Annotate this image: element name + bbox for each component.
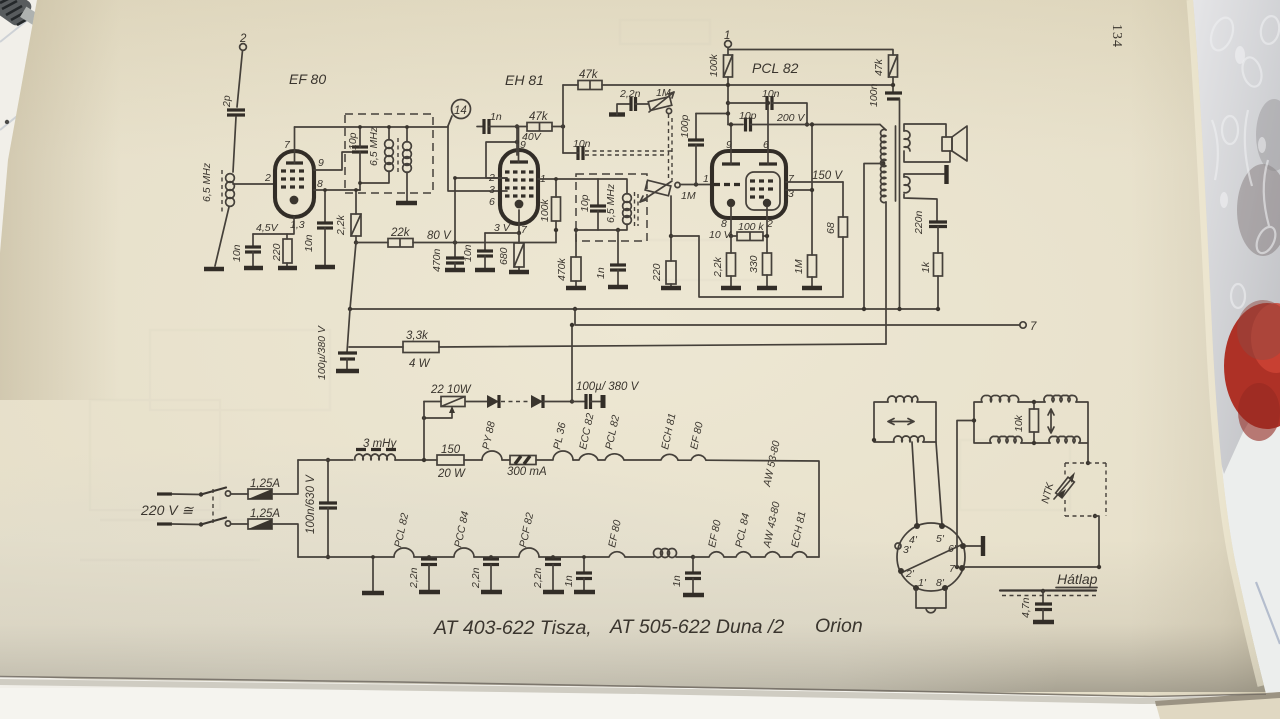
output transformer secondary upper [904,131,910,151]
dashed box NTK [1065,463,1106,516]
svg-text:4,7n: 4,7n [1020,597,1032,618]
heater hump ECH81 lower [780,510,809,557]
node 100k/47k line [726,83,730,87]
capacitor 100n [868,83,902,309]
shadow under page bottom edge [0,679,1266,704]
svg-text:10 V: 10 V [709,229,732,241]
node pin9 riser [515,140,519,144]
back panel line solid [1000,589,1096,591]
bubble wrap highlights [1207,15,1280,308]
coil L3 secondary (box1) [403,142,412,173]
svg-text:6: 6 [763,139,769,151]
wire 3V left [485,232,519,234]
svg-text:220 V ≅: 220 V ≅ [140,502,194,518]
svg-text:9: 9 [726,139,732,151]
ground coil L3 [396,201,417,205]
capacitor 1n d [553,557,592,590]
wire pin7 line [965,566,1099,568]
output transformer primary [880,125,886,345]
ground 100µ main [336,369,359,373]
node NTK bottom [1093,514,1097,518]
wire PY88 to fuse [502,459,510,461]
svg-text:100p: 100p [679,114,691,138]
resistor 1k [920,253,943,309]
resistor 47k output [873,55,898,92]
node 1n e [691,555,695,559]
wire EH81 grid2 riser [486,142,517,178]
svg-text:AT 403-622 Tisza,: AT 403-622 Tisza, [433,617,592,639]
resistor 220 volume return [651,196,676,286]
svg-text:68: 68 [825,222,837,234]
shielded pair dashed horizontal [585,151,672,155]
node rheostat riser [422,458,426,462]
wire riser to top 47k line [562,85,564,153]
svg-text:Hátlap: Hátlap [1057,571,1098,587]
svg-text:3': 3' [903,544,912,556]
capacitor 2p [221,95,245,115]
capacitor 10n screen EF80 [303,190,333,265]
svg-text:9: 9 [318,157,324,169]
capacitor 1n det [595,230,626,285]
svg-text:10k: 10k [1013,414,1025,432]
heater hump PCL82 lower [392,512,414,557]
svg-text:20 W: 20 W [437,468,466,480]
svg-text:3: 3 [489,184,495,196]
wire heater lower right end [807,556,819,558]
wire 80V line [413,230,556,243]
svg-text:1n: 1n [671,575,683,587]
wire 10p bottom [359,152,361,183]
width coil top-right [1044,395,1077,402]
switch dashed link [212,489,214,524]
svg-text:1n: 1n [563,575,575,587]
wire pot2 to PCL82 pin1 [680,184,712,186]
heater hump PCC84 [429,510,474,557]
wire NTK to pin7 line [1095,516,1099,567]
rheostat wiper arm [422,406,455,420]
PCL82 pentode plate [759,103,777,164]
junction dots misc [323,125,940,559]
ground 1M [802,286,822,290]
svg-text:1n: 1n [490,111,502,123]
PCL82 triode cathode dot [727,199,735,207]
wire terminal1 top line [728,48,893,56]
svg-text:1: 1 [703,173,709,185]
ground 2,2n a [419,590,440,594]
coil L4 6,5MHz (box2) [605,183,631,224]
output transformer secondary lower [904,177,910,193]
svg-text:47k: 47k [579,69,599,81]
svg-text:47k: 47k [529,111,549,123]
resistor 100k cathode row [731,221,767,241]
capacitor 10p (box1) [347,132,368,152]
CRT pin 8' [936,577,948,591]
svg-text:100k: 100k [539,198,551,222]
svg-text:22 10W: 22 10W [430,384,472,396]
deflection yoke frame left [874,402,936,442]
CRT pin 4' [909,523,920,546]
node rectifier output [570,399,574,403]
node width right riser [1086,461,1090,465]
svg-text:10n: 10n [462,244,474,262]
fuse 300mA [507,456,547,479]
diode D1 [466,395,499,408]
node 100n choke line [326,458,330,462]
arrow width adjust [1048,409,1054,433]
resistor 330 [748,253,772,286]
IF transformer dashed box 1 [345,114,433,193]
red object right edge [1224,303,1280,429]
ground 1n e [683,593,704,597]
svg-text:10n: 10n [573,138,591,150]
node 4,7n tap [1041,589,1045,593]
back panel line dashed [1002,595,1096,597]
svg-text:5': 5' [936,533,945,545]
resistor 100k IF [539,179,561,230]
svg-text:2,2n: 2,2n [619,88,641,100]
rheostat 22 10W [424,384,472,407]
resistor 47k grid EH81 [527,111,552,131]
EH81 output line pin1 [538,178,598,180]
heater hump ECC82 [573,412,598,460]
CRT chord line [903,545,961,572]
svg-text:8: 8 [317,178,323,190]
ground antenna [204,267,224,271]
tile grout line bottom-right [1256,582,1280,644]
PCL triode cathode wire [730,207,732,236]
next page sliver bottom right [1155,692,1280,719]
svg-text:470k: 470k [556,257,568,281]
svg-text:2p: 2p [221,95,233,108]
ground 10n EH81 [475,268,495,272]
capacitor 10n cathode EF80 [231,234,261,266]
node triode plate line [729,122,733,126]
capacitor 4,7n [1020,591,1052,620]
svg-text:1': 1' [918,577,927,589]
dashed core box1 [397,138,399,172]
wire 100k down [727,77,729,125]
ground 10n screen [315,265,335,269]
node box2 rail mid [616,228,620,232]
terminal 2 (antenna input) [239,33,247,50]
node pin7/width riser [955,565,959,569]
bubble wrap area right [1190,0,1280,474]
svg-text:10p: 10p [579,194,591,212]
capacitor 100n/630V [305,460,337,557]
ground 470n [445,268,465,272]
svg-text:2,2n: 2,2n [408,567,420,589]
svg-text:47k: 47k [873,58,885,76]
wire coil L4 top [598,179,627,194]
resistor 68 [825,182,848,297]
svg-text:680: 680 [498,247,510,265]
tube PCL82 envelope [712,151,786,218]
wire coil L3 top [406,127,408,142]
svg-text:10n: 10n [231,244,243,262]
capacitor 2,2n c [532,557,561,590]
wire antenna down [237,51,243,108]
svg-text:10p: 10p [347,132,359,150]
svg-text:100µ/380 V: 100µ/380 V [316,325,328,380]
contact circle pot2 [675,182,680,187]
node 100k bottom [554,228,558,232]
width coil top-left [981,395,1018,402]
svg-text:1M: 1M [656,87,671,99]
resistor 2,2k cathode [712,236,736,286]
callout 14 [448,100,471,127]
pin 9 wire EF80 [314,152,352,170]
node 2,2k/22k junction [354,240,358,244]
svg-text:22k: 22k [390,227,411,239]
capacitor 2,2n a [408,557,437,590]
svg-text:3 mHy: 3 mHy [363,438,397,450]
potentiometer 1M volume [640,180,696,202]
svg-text:1n: 1n [595,267,607,279]
ground 680 [509,270,529,274]
resistor 470k [556,230,581,286]
ground bar heater stub [362,591,384,595]
yoke coil bottom [894,436,924,442]
ground 330 [757,286,777,290]
node 220/cathode row [669,234,673,238]
CRT base key [916,590,946,613]
output transformer B+ tap [864,161,885,309]
node pin7 right [1097,565,1101,569]
wire yoke to pin5 [936,442,942,524]
ground stub heater [372,557,374,591]
choke 3 mHy [355,438,398,460]
svg-text:6: 6 [489,196,495,208]
resistor 220 cathode EF80 [271,234,292,266]
wire 80V to 100k bottom [555,230,557,243]
PCL pentode cathode wire [766,207,768,253]
capacitor 100µ/380V main filter [316,309,357,380]
capacitor 2,2n [617,88,648,115]
capacitor 470n [431,243,464,273]
heater hump PCF82 [491,511,539,557]
PCL82 pentode inner box [746,172,780,210]
svg-text:2: 2 [239,33,247,45]
wire junction down to B+ [350,243,356,310]
resistor 47k anode EH81 [563,69,893,90]
wire 10p top [359,127,361,147]
svg-text:6,5 MHz: 6,5 MHz [368,126,380,166]
wire coil L3 to ground [406,172,408,201]
wire 100p top to terminal1 riser [696,113,727,115]
node 100k/10n line [726,101,730,105]
wire choke line left [298,459,353,461]
svg-text:100n: 100n [868,83,880,107]
resistor 1M [793,255,817,286]
node bus A 150V [862,307,866,311]
node 10k top [1032,400,1036,404]
svg-text:1M: 1M [681,190,696,202]
ground 220 [278,266,297,270]
svg-text:10n: 10n [303,234,315,252]
wire 14-node down to EH81 pin3 [448,126,507,191]
PCL82 grid dashes [714,181,773,197]
contact circle pot1 [666,108,671,113]
wire B+ bus line A [350,308,938,310]
bottom table bright strip [0,688,1232,719]
svg-text:1: 1 [724,30,730,42]
wire terminal 7 line [575,309,1020,325]
wire width riser [957,421,974,568]
svg-text:2,2n: 2,2n [470,567,482,589]
speaker [904,124,967,162]
wire rectifier riser [571,325,573,402]
wire coil L2 top [388,127,390,140]
resistor 3,3k 4W [403,330,439,370]
CRT pin 2' [898,568,915,580]
svg-text:1,25A: 1,25A [250,508,280,520]
node bus A 100n [897,307,901,311]
ground 10n cathode [244,266,263,270]
shielded pair dashed vertical [669,114,673,180]
CRT pin 3' [895,543,912,556]
svg-text:6,5 MHz: 6,5 MHz [201,162,213,202]
svg-text:220: 220 [651,263,663,282]
CRT pin 1' [913,577,927,591]
wire pin3 g2 [786,189,812,191]
wire pin9 riser [516,127,518,156]
PCL82 pentode cathode dot [763,199,771,207]
node 47k/85 line [891,83,895,87]
wire EF80 plate line [295,126,449,128]
svg-text:134: 134 [1109,24,1124,48]
wire coil to ground [215,207,229,266]
wire 220 to PCL cathode row [671,235,699,237]
dark object under wrap [1237,164,1280,256]
ground 1n d [574,590,595,594]
svg-text:2,2k: 2,2k [712,256,724,278]
ground 1n det [608,285,628,289]
dashed core box2 [635,192,639,228]
wire heater upper right [706,460,819,557]
svg-text:470n: 470n [431,248,443,272]
fuse 1,25A lower [231,508,298,557]
resistor 10k width [1013,402,1039,443]
svg-text:7: 7 [1030,321,1037,333]
CRT pin 6' [948,543,966,555]
width coil bottom-right [1049,436,1080,443]
CRT socket circle [897,523,965,591]
svg-text:AT 505-622 Duna /2: AT 505-622 Duna /2 [609,616,784,638]
EH81 anode plate [510,127,528,162]
ground 2,2n b [481,590,502,594]
page bottom curled edge dark line [0,677,1266,697]
fuse 1,25A upper [231,460,298,499]
capacitor 100µ/380V reservoir [572,381,640,409]
svg-text:10n: 10n [762,88,780,100]
svg-text:Orion: Orion [815,615,863,637]
svg-text:40V: 40V [522,131,542,143]
svg-text:2': 2' [905,568,915,580]
node 10k bottom [1032,441,1036,445]
coil heater series [625,549,693,558]
resistor 150 20W [437,444,466,480]
svg-text:100k: 100k [708,53,720,77]
arrow yoke adjust [888,419,914,425]
svg-text:1k: 1k [920,261,932,273]
svg-text:300 mA: 300 mA [507,466,547,478]
svg-text:220: 220 [271,243,283,262]
capacitor 10n cathode EH81 [462,233,493,268]
pin 8 wire EF80 [314,178,360,190]
svg-text:EH 81: EH 81 [505,72,544,88]
heater hump EF80 upper [678,421,706,460]
wire heater lower from mains [298,556,394,558]
EH81 cathode wire [518,210,520,233]
wire grid EF80 [233,183,275,185]
diode D2 [531,395,572,408]
node yoke left [872,438,876,442]
svg-text:2,2n: 2,2n [532,567,544,589]
svg-text:100n/630 V: 100n/630 V [305,474,317,534]
heater hump PCL84 [724,512,752,557]
heater hump PY88 [480,420,502,460]
width transformer frame [974,402,1088,463]
svg-text:150 V: 150 V [812,170,843,182]
CRT pin 7' [949,563,965,575]
EF80 grid dashes [281,171,304,187]
capacitor 1n coupling [477,111,527,134]
node cathode 3V [517,231,521,235]
CRT pin 5' [936,523,945,545]
metal screw top-left [0,0,40,28]
wire choke to 150 [395,459,437,461]
capacitor 1n e [671,557,701,593]
ground 2,2k [721,286,741,290]
heater hump PL36 [536,421,573,460]
svg-text:100 k: 100 k [738,221,764,233]
coil L1 6,5 MHz antenna [201,162,234,212]
resistor 100k screen [708,53,733,77]
node pentode cathode [765,234,769,238]
node 100n heater line [326,555,330,559]
svg-text:1,3: 1,3 [290,219,305,231]
heater hump AW43-80 [751,500,783,557]
wire 470n node up to EH81 grid2 line [455,178,507,243]
EH81 cathode dot [515,200,524,209]
IF transformer dashed box 2 [576,174,647,241]
ground 470k [566,286,586,290]
wire yoke to pin4 [912,442,917,524]
node 47k/riser [561,124,565,128]
coil L2 6,5MHz (box1) [368,126,393,171]
capacitor 10n coupling PCL [728,88,807,125]
node pentode plate line [766,101,770,105]
terminal 7 [1020,321,1037,333]
capacitor 10p (box2) [579,179,606,230]
wire 150 to PY88 [464,459,482,461]
tile grout lines top-left [0,10,40,130]
wire 47k to node [552,126,563,128]
wire rheostat to choke line [423,402,425,461]
EF80 cathode dot [290,196,299,205]
PCL82 triode plate [722,125,740,165]
dashed link diodes [501,401,530,403]
svg-text:330: 330 [748,255,760,273]
heater hump ECH81 upper [624,412,679,460]
mains input pole lower [157,518,231,527]
wire 10n left [563,152,578,154]
tile floor right [1185,0,1280,719]
node bus A 7-riser [573,307,577,311]
node 100p/pin1 line [694,182,698,186]
resistor 680 [498,233,524,270]
capacitor 220n tone [904,194,947,253]
